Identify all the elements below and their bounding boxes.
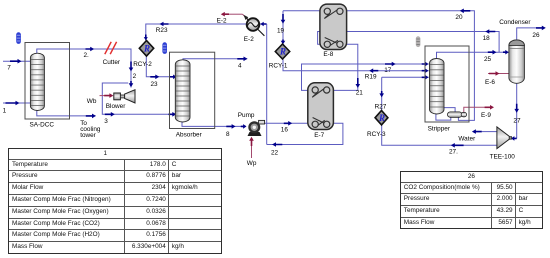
subflowsheet box Absorber <box>170 52 215 138</box>
tee TEE-100 <box>490 127 516 160</box>
wire stream R27 RCY-3 to Stripper <box>375 75 429 111</box>
svg-text:4: 4 <box>238 62 242 69</box>
column SA-DCC <box>30 53 44 110</box>
wire stream 20 reboiler to E-8 <box>283 9 474 121</box>
column Stripper <box>430 58 445 114</box>
wire stream R23 E-2 to RCY-2 <box>144 22 247 41</box>
svg-text:R: R <box>279 47 286 57</box>
subflowsheet box SA-DCC <box>25 43 70 129</box>
svg-text:25: 25 <box>484 56 492 63</box>
svg-text:RCY-2: RCY-2 <box>133 61 152 68</box>
svg-text:E-2: E-2 <box>244 36 254 43</box>
subflowsheet box Stripper <box>425 46 469 133</box>
plate exchanger E-8 <box>320 4 347 58</box>
svg-text:16: 16 <box>281 127 289 134</box>
icon marker SA-DCC <box>16 32 21 44</box>
svg-text:20: 20 <box>455 14 463 21</box>
wire stream 21 E-8 to E-7 <box>327 44 363 96</box>
svg-text:Wp: Wp <box>247 160 257 167</box>
svg-text:27: 27 <box>513 117 521 124</box>
svg-text:18: 18 <box>483 35 491 42</box>
wire stream 25 Stripper overhead to Condenser <box>437 50 509 63</box>
wire stream 18 E-8 to condenser line <box>318 29 500 52</box>
wire stream 16 Pump to E-7 <box>260 121 314 134</box>
wire stream R19 RCY-1 to Stripper <box>283 59 429 81</box>
svg-text:Cutter: Cutter <box>103 59 121 66</box>
condenser vessel <box>499 19 531 83</box>
svg-text:3: 3 <box>104 118 108 125</box>
wire stream 22 riser to E-2 <box>260 22 267 145</box>
svg-text:8: 8 <box>226 131 230 138</box>
wire stream 23 RCY-2 to Absorber <box>146 56 176 88</box>
energy stream Wb to Blower <box>87 93 114 105</box>
svg-text:26: 26 <box>532 32 540 39</box>
wire stream 17 E-7 to Stripper <box>302 62 429 91</box>
svg-text:E-9: E-9 <box>481 112 491 119</box>
svg-text:2.: 2. <box>84 52 90 59</box>
svg-text:7: 7 <box>7 65 11 72</box>
wire stream 19 to RCY-1 <box>277 11 285 45</box>
svg-text:E-7: E-7 <box>314 132 324 139</box>
svg-text:R: R <box>143 44 150 54</box>
pump Pump <box>238 112 265 136</box>
svg-text:R27: R27 <box>375 104 387 111</box>
blower Blower <box>106 90 135 111</box>
svg-text:RCY-3: RCY-3 <box>367 131 386 138</box>
cutter Cutter <box>103 42 121 66</box>
svg-text:R19: R19 <box>365 73 377 80</box>
svg-text:22: 22 <box>271 149 279 156</box>
svg-text:21: 21 <box>356 90 364 97</box>
svg-text:1: 1 <box>3 107 7 114</box>
wire stream 8 Absorber bottoms to Pump <box>182 121 247 138</box>
svg-text:Water: Water <box>458 135 476 142</box>
svg-text:Pump: Pump <box>238 112 255 119</box>
svg-text:2: 2 <box>133 73 137 80</box>
wire stream 27 Condenser to TEE-100 <box>511 83 521 141</box>
svg-text:Wb: Wb <box>87 98 97 105</box>
svg-text:tower: tower <box>80 132 96 139</box>
svg-text:19: 19 <box>277 28 285 35</box>
svg-text:RCY-1: RCY-1 <box>269 63 288 70</box>
wire To cooling tower from SA-DCC bottom <box>37 110 101 139</box>
svg-text:27.: 27. <box>449 148 458 155</box>
wire stream 26 Condenser overhead <box>517 26 546 41</box>
wire stream 7 into SA-DCC <box>3 59 32 72</box>
svg-text:Stripper: Stripper <box>428 126 451 133</box>
wire stream 2 SA-DCC top to Blower <box>37 47 137 88</box>
svg-text:Absorber: Absorber <box>176 132 203 139</box>
recycle RCY-3 <box>367 111 388 139</box>
cooler E-2 <box>244 15 265 43</box>
column Absorber <box>175 60 190 122</box>
icon marker Stripper <box>416 36 421 47</box>
wire stream 27. TEE-100 to RCY-3 <box>382 125 497 155</box>
wire stream 4 Absorber overhead <box>183 57 248 70</box>
svg-text:E-6: E-6 <box>485 79 495 86</box>
recycle RCY-1 <box>269 44 290 70</box>
icon marker Absorber <box>162 42 167 54</box>
svg-text:E-2: E-2 <box>217 18 227 25</box>
energy stream E-9 to reboiler <box>464 105 494 119</box>
wire stream 3 Blower outlet to Absorber <box>102 83 176 125</box>
wire Stripper bottoms to reboiler E-9 <box>436 108 455 121</box>
svg-text:Condenser: Condenser <box>499 19 531 26</box>
svg-text:TEE-100: TEE-100 <box>490 153 516 160</box>
wire Water TEE-100 to Stripper <box>458 129 497 142</box>
svg-text:Blower: Blower <box>106 103 126 110</box>
wire stream 22 E-7 to E-2 riser <box>267 123 343 156</box>
recycle RCY-2 <box>133 41 154 69</box>
wire stream 1 into SA-DCC <box>3 101 32 115</box>
svg-text:23: 23 <box>151 81 159 88</box>
reboiler E-9 <box>448 112 467 117</box>
svg-text:SA-DCC: SA-DCC <box>30 122 55 129</box>
energy stream Wp to Pump <box>247 137 257 167</box>
energy stream E-2 from cooler <box>217 12 248 25</box>
energy stream E-6 to Condenser <box>485 71 509 86</box>
svg-text:R23: R23 <box>156 27 168 34</box>
plate exchanger E-7 <box>308 83 334 139</box>
svg-text:R: R <box>378 113 385 123</box>
svg-text:E-8: E-8 <box>323 51 333 58</box>
